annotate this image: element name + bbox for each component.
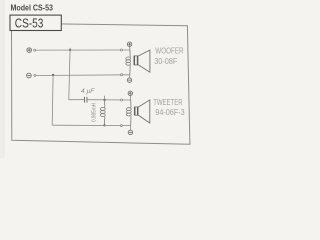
- woofer voice coil: [126, 50, 131, 75]
- connector circle at - terminal: [34, 74, 36, 76]
- connector circle at woofer - lead: [121, 74, 123, 76]
- wire: + bus horizontal: [36, 49, 130, 51]
- node J2 (cap/inductor junction): [103, 99, 105, 101]
- svg-text:94-06F-3: 94-06F-3: [155, 108, 184, 117]
- node J1 on + bus: [69, 49, 71, 51]
- wire: vertical from J3 down: [51, 75, 54, 125]
- tweeter speaker cone: [138, 100, 149, 123]
- tweeter + terminal: [128, 91, 132, 95]
- woofer + terminal: [127, 42, 131, 46]
- schematic frame border: [12, 23, 190, 144]
- inductor L1 (0.985mH shunt): [100, 100, 105, 126]
- input terminal + (plus): [27, 48, 32, 53]
- wire: tweeter bottom lead to minus: [129, 126, 131, 131]
- connector circle at tweeter - lead: [120, 125, 122, 127]
- svg-text:Model CS-53: Model CS-53: [11, 3, 54, 13]
- node J3 on - bus: [52, 74, 54, 76]
- svg-text:30-08F: 30-08F: [154, 57, 177, 66]
- svg-text:WOOFER: WOOFER: [155, 47, 184, 56]
- wire: woofer top lead: [129, 47, 131, 51]
- input terminal - (minus): [27, 73, 32, 78]
- connector circle at woofer + lead: [120, 49, 122, 51]
- svg-text:0.985mH: 0.985mH: [92, 103, 98, 122]
- model box CS-53: [10, 15, 61, 30]
- capacitor C1 plates: [85, 97, 87, 103]
- woofer speaker magnet: [134, 56, 139, 65]
- wire: bottom bus horizontal to tweeter: [52, 124, 130, 126]
- woofer - terminal: [127, 78, 131, 82]
- wire: tweeter top lead: [129, 96, 131, 101]
- wire: vertical from J1 down to capacitor branch: [69, 48, 70, 100]
- wire: capacitor branch horizontal: [69, 99, 131, 101]
- svg-text:4 μF: 4 μF: [81, 88, 96, 95]
- tweeter speaker magnet: [134, 107, 138, 116]
- tweeter - terminal: [128, 130, 132, 134]
- woofer speaker cone: [138, 50, 150, 72]
- wire: woofer bottom lead to minus: [129, 75, 131, 78]
- tweeter voice coil: [126, 100, 131, 126]
- wire: - bus horizontal: [36, 74, 130, 77]
- svg-text:CS-53: CS-53: [15, 17, 44, 31]
- svg-text:TWEETER: TWEETER: [153, 98, 183, 107]
- node: inductor bottom junction: [103, 124, 105, 126]
- connector circle at + terminal: [34, 49, 36, 51]
- connector circle at tweeter + lead: [121, 99, 123, 101]
